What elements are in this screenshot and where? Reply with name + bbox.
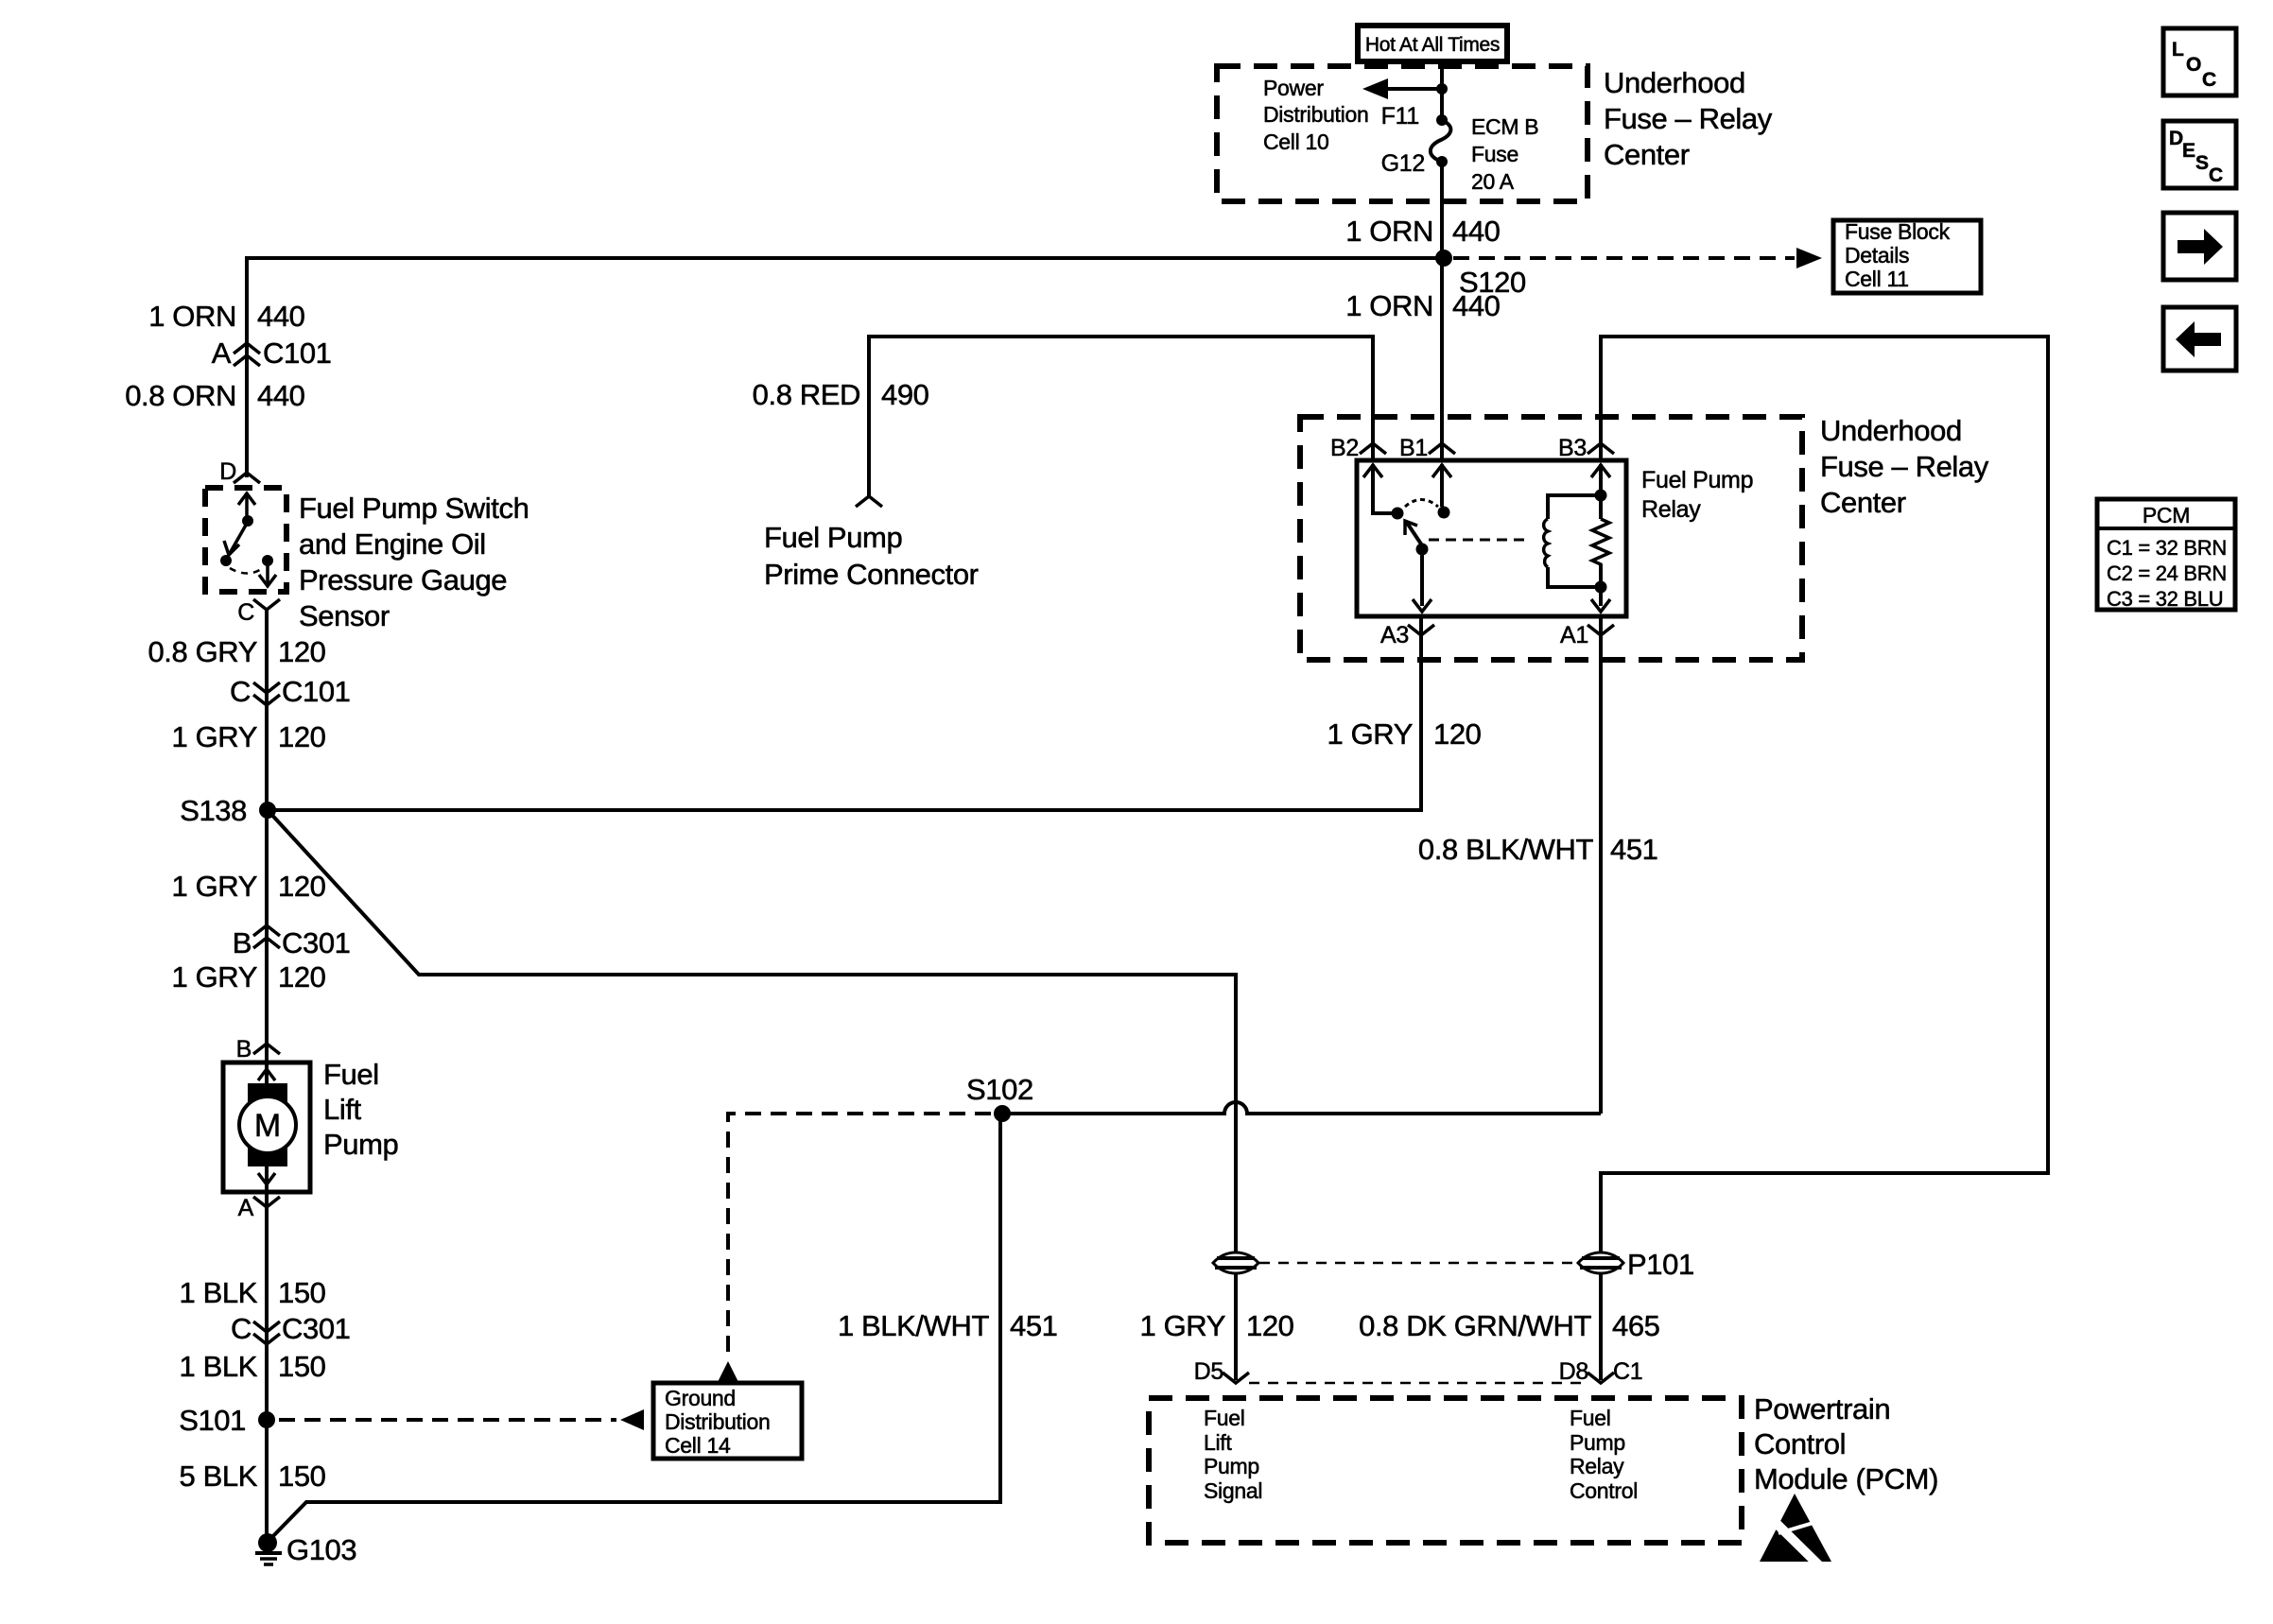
- svg-text:P101: P101: [1627, 1248, 1694, 1281]
- svg-text:Center: Center: [1820, 486, 1906, 519]
- svg-text:Distribution: Distribution: [665, 1409, 770, 1434]
- svg-text:150: 150: [278, 1460, 326, 1493]
- svg-text:Pump: Pump: [323, 1128, 398, 1161]
- svg-text:C101: C101: [263, 337, 332, 370]
- svg-text:C301: C301: [282, 1312, 351, 1345]
- svg-text:C: C: [237, 599, 254, 626]
- svg-text:0.8 BLK/WHT: 0.8 BLK/WHT: [1418, 833, 1594, 866]
- svg-text:1 GRY: 1 GRY: [1140, 1309, 1225, 1342]
- svg-text:A: A: [238, 1195, 254, 1221]
- svg-text:Fuel: Fuel: [1204, 1406, 1245, 1430]
- svg-text:Cell 11: Cell 11: [1845, 267, 1909, 291]
- svg-text:465: 465: [1612, 1309, 1660, 1342]
- svg-text:440: 440: [1452, 289, 1501, 322]
- svg-text:Details: Details: [1845, 243, 1909, 268]
- svg-text:1 GRY: 1 GRY: [172, 960, 257, 993]
- svg-text:1 ORN: 1 ORN: [148, 300, 236, 333]
- svg-text:D: D: [2169, 128, 2183, 149]
- svg-text:G103: G103: [286, 1533, 356, 1566]
- svg-text:Fuse Block: Fuse Block: [1845, 219, 1951, 244]
- svg-text:B1: B1: [1399, 435, 1428, 461]
- svg-text:Prime Connector: Prime Connector: [764, 558, 979, 591]
- svg-text:440: 440: [257, 300, 305, 333]
- svg-text:440: 440: [1452, 215, 1501, 248]
- svg-text:A: A: [212, 337, 232, 370]
- svg-text:A3: A3: [1380, 622, 1409, 648]
- svg-text:120: 120: [278, 635, 326, 668]
- svg-text:Ground: Ground: [665, 1386, 736, 1410]
- svg-text:Powertrain: Powertrain: [1754, 1392, 1890, 1425]
- svg-text:D5: D5: [1194, 1358, 1223, 1385]
- svg-text:C101: C101: [282, 675, 351, 708]
- svg-text:150: 150: [278, 1276, 326, 1309]
- svg-text:C: C: [2202, 69, 2216, 91]
- svg-text:1 ORN: 1 ORN: [1345, 215, 1433, 248]
- svg-text:B: B: [233, 926, 252, 959]
- svg-text:S102: S102: [966, 1073, 1033, 1106]
- svg-text:Cell 14: Cell 14: [665, 1433, 731, 1458]
- svg-text:D8: D8: [1559, 1358, 1588, 1385]
- svg-text:Distribution: Distribution: [1263, 102, 1368, 127]
- svg-text:Center: Center: [1604, 138, 1690, 171]
- svg-text:1 GRY: 1 GRY: [1327, 717, 1413, 751]
- svg-text:S: S: [2195, 152, 2209, 174]
- svg-text:440: 440: [257, 379, 305, 412]
- svg-text:L: L: [2172, 39, 2184, 60]
- svg-text:120: 120: [1246, 1309, 1294, 1342]
- svg-text:C: C: [231, 1312, 252, 1345]
- svg-text:Underhood: Underhood: [1820, 414, 1962, 447]
- svg-text:Fuse – Relay: Fuse – Relay: [1820, 450, 1989, 483]
- svg-text:0.8 GRY: 0.8 GRY: [147, 635, 257, 668]
- svg-text:Relay: Relay: [1570, 1454, 1624, 1478]
- svg-text:120: 120: [1433, 717, 1482, 751]
- svg-text:B2: B2: [1330, 435, 1359, 461]
- svg-text:Hot At All Times: Hot At All Times: [1365, 34, 1500, 56]
- svg-text:Cell 10: Cell 10: [1263, 130, 1329, 154]
- svg-text:150: 150: [278, 1350, 326, 1383]
- svg-text:C1: C1: [1613, 1358, 1642, 1385]
- svg-text:PCM: PCM: [2143, 503, 2190, 527]
- svg-text:5 BLK: 5 BLK: [180, 1460, 258, 1493]
- svg-text:B: B: [236, 1036, 252, 1063]
- svg-text:Lift: Lift: [323, 1093, 362, 1126]
- svg-text:1 BLK: 1 BLK: [180, 1276, 258, 1309]
- svg-text:E: E: [2182, 140, 2195, 162]
- svg-text:Fuel: Fuel: [323, 1058, 379, 1091]
- svg-text:Sensor: Sensor: [299, 599, 390, 632]
- svg-text:451: 451: [1010, 1309, 1058, 1342]
- svg-text:20 A: 20 A: [1471, 169, 1515, 194]
- svg-text:Power: Power: [1263, 76, 1324, 100]
- svg-text:Signal: Signal: [1204, 1478, 1262, 1503]
- svg-text:ECM B: ECM B: [1471, 114, 1538, 139]
- svg-text:1 BLK: 1 BLK: [180, 1350, 258, 1383]
- svg-text:Fuse: Fuse: [1471, 142, 1518, 166]
- svg-text:C: C: [230, 675, 251, 708]
- svg-text:Fuel Pump: Fuel Pump: [1641, 467, 1753, 493]
- svg-text:M: M: [254, 1108, 281, 1144]
- svg-text:1 GRY: 1 GRY: [172, 720, 257, 753]
- svg-text:Module (PCM): Module (PCM): [1754, 1462, 1938, 1495]
- svg-text:C1 = 32 BRN: C1 = 32 BRN: [2107, 536, 2227, 560]
- svg-text:490: 490: [881, 378, 929, 411]
- svg-text:Relay: Relay: [1641, 496, 1701, 523]
- svg-text:D: D: [219, 458, 236, 485]
- svg-text:F11: F11: [1381, 103, 1419, 130]
- svg-text:G12: G12: [1381, 150, 1425, 177]
- svg-text:0.8 ORN: 0.8 ORN: [125, 379, 236, 412]
- svg-text:0.8 DK GRN/WHT: 0.8 DK GRN/WHT: [1359, 1309, 1591, 1342]
- svg-text:1 ORN: 1 ORN: [1345, 289, 1433, 322]
- svg-text:A1: A1: [1560, 622, 1588, 648]
- svg-text:Pump: Pump: [1204, 1454, 1259, 1478]
- svg-text:Lift: Lift: [1204, 1430, 1232, 1455]
- svg-text:1 BLK/WHT: 1 BLK/WHT: [838, 1309, 990, 1342]
- svg-text:1 GRY: 1 GRY: [172, 870, 257, 903]
- svg-text:120: 120: [278, 960, 326, 993]
- svg-text:O: O: [2186, 54, 2201, 76]
- svg-text:Control: Control: [1754, 1427, 1846, 1460]
- svg-text:S138: S138: [180, 794, 247, 827]
- svg-text:451: 451: [1610, 833, 1658, 866]
- svg-text:S101: S101: [179, 1404, 246, 1437]
- svg-text:120: 120: [278, 870, 326, 903]
- svg-text:Fuel: Fuel: [1570, 1406, 1611, 1430]
- svg-text:C: C: [2209, 164, 2223, 186]
- svg-text:C301: C301: [282, 926, 351, 959]
- svg-text:0.8 RED: 0.8 RED: [753, 378, 860, 411]
- svg-text:Fuel Pump Switch: Fuel Pump Switch: [299, 492, 529, 525]
- svg-text:Underhood: Underhood: [1604, 66, 1745, 99]
- svg-text:Fuel Pump: Fuel Pump: [764, 521, 902, 554]
- svg-text:C3 = 32 BLU: C3 = 32 BLU: [2107, 587, 2223, 611]
- svg-text:C2 = 24 BRN: C2 = 24 BRN: [2107, 561, 2227, 585]
- svg-text:Pump: Pump: [1570, 1430, 1625, 1455]
- svg-text:B3: B3: [1558, 435, 1587, 461]
- svg-text:Pressure Gauge: Pressure Gauge: [299, 563, 507, 596]
- svg-text:and Engine Oil: and Engine Oil: [299, 527, 486, 561]
- svg-text:Control: Control: [1570, 1478, 1638, 1503]
- svg-text:Fuse – Relay: Fuse – Relay: [1604, 102, 1773, 135]
- svg-text:120: 120: [278, 720, 326, 753]
